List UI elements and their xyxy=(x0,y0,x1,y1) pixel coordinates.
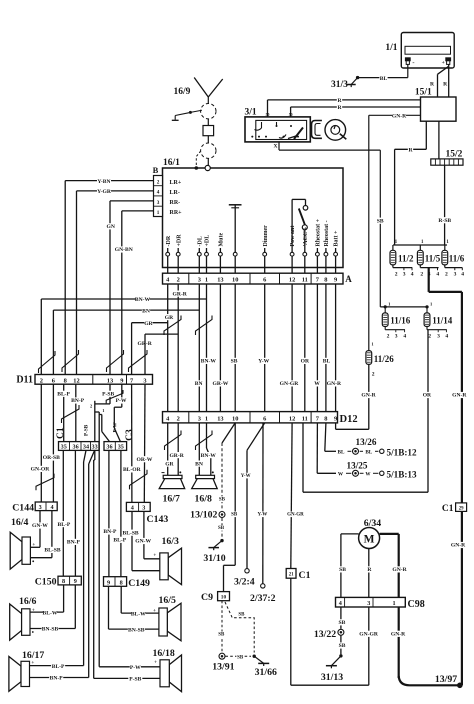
svg-text:GR: GR xyxy=(144,321,153,327)
splice 13/22 xyxy=(314,629,344,640)
connector C3 strip xyxy=(104,442,127,451)
connector slash above D11 pins 8-12 xyxy=(62,350,79,372)
svg-text:1/1: 1/1 xyxy=(385,43,397,53)
svg-text:Dimmer: Dimmer xyxy=(263,225,269,247)
svg-text:2: 2 xyxy=(372,372,375,378)
wire BN branch to D11:6 xyxy=(53,308,199,375)
ground 31/13 xyxy=(321,654,343,683)
wire GN-GR D12:12 to C1:21 xyxy=(287,423,304,569)
connector C1 pin 29 xyxy=(442,503,467,514)
wire P-SB to 16/18 lower xyxy=(94,676,160,683)
svg-text:16/1: 16/1 xyxy=(163,158,180,168)
svg-text:A: A xyxy=(345,274,352,284)
connector slash on 16/7 pair lower xyxy=(165,431,182,451)
wire SB ignition X terminal xyxy=(279,142,384,307)
antenna 16/9 xyxy=(174,78,223,104)
svg-text:BL-SB: BL-SB xyxy=(123,530,139,536)
svg-text:SB: SB xyxy=(377,218,384,224)
wire OR radio A:11 to D12 xyxy=(301,284,310,412)
wire SB D12:10 to 13/102 xyxy=(218,423,235,511)
svg-text:13/97: 13/97 xyxy=(435,674,457,685)
svg-text:15/1: 15/1 xyxy=(415,88,432,98)
connector C143 xyxy=(126,502,168,524)
svg-text:GN: GN xyxy=(107,224,115,230)
svg-text:-: - xyxy=(412,59,414,66)
svg-text:GR-R: GR-R xyxy=(173,291,188,297)
svg-text:SB: SB xyxy=(231,359,238,365)
svg-text:10: 10 xyxy=(221,595,227,601)
svg-text:11: 11 xyxy=(302,277,308,284)
svg-text:GN-GR: GN-GR xyxy=(280,381,300,387)
svg-text:1: 1 xyxy=(205,277,208,284)
connector slash above D11 pins 7-3 xyxy=(129,350,148,372)
svg-text:BN-SB: BN-SB xyxy=(42,627,59,633)
wire GR-W radio A:13 to D12 xyxy=(212,284,228,412)
wire BL-W C150:8 to 16/6 xyxy=(30,585,64,616)
svg-text:3/2:4: 3/2:4 xyxy=(234,577,255,588)
wire BL-P D11:8 to C1:35 xyxy=(57,384,71,441)
svg-text:W: W xyxy=(365,472,371,478)
junction 13/97 xyxy=(435,674,463,688)
svg-text:2: 2 xyxy=(177,416,180,423)
svg-text:2: 2 xyxy=(40,377,43,384)
svg-text:31/66: 31/66 xyxy=(255,667,277,678)
splice 13/102 xyxy=(190,510,225,521)
svg-text:BN-P: BN-P xyxy=(67,540,81,546)
svg-text:34: 34 xyxy=(83,444,89,451)
wire Y-GR radio B:4 xyxy=(77,188,154,374)
wire GN radio B:3 xyxy=(107,201,154,375)
svg-text:11/6: 11/6 xyxy=(449,254,465,264)
svg-text:BN-P: BN-P xyxy=(71,398,85,404)
svg-text:+DL: +DL xyxy=(205,235,211,247)
svg-text:Y-GR: Y-GR xyxy=(97,189,112,195)
svg-text:12: 12 xyxy=(289,416,295,423)
fuse 11/14 xyxy=(424,307,453,340)
wire GN-OR D11:2 to C144:3 xyxy=(31,384,51,502)
svg-text:3: 3 xyxy=(157,200,160,206)
svg-text:LR+: LR+ xyxy=(170,180,182,186)
wire R ignition 50 to 15/1 (upper) xyxy=(268,97,421,117)
svg-text:3: 3 xyxy=(143,377,146,384)
wire BN-P C1:36 to C150:9 xyxy=(66,450,80,576)
svg-text:BN: BN xyxy=(142,308,150,314)
svg-text:15/2: 15/2 xyxy=(446,150,463,160)
wire P-SB D11:13 to 16/18 xyxy=(90,384,115,678)
svg-text:BL-W: BL-W xyxy=(131,611,146,617)
connector C1 strip xyxy=(59,442,100,451)
svg-text:10: 10 xyxy=(232,277,238,284)
svg-text:OR: OR xyxy=(301,359,310,365)
antenna ground lever xyxy=(172,110,202,120)
wire P-W to 16/18 upper xyxy=(99,664,160,671)
connector C144 xyxy=(12,502,57,514)
svg-text:2: 2 xyxy=(420,272,423,278)
dashed hook at radio antenna input xyxy=(196,152,200,165)
svg-text:C3: C3 xyxy=(125,429,135,441)
wire P-W D11:9 to C3:35 xyxy=(102,384,127,441)
wire SB C98:4 to 13/22 xyxy=(338,607,346,629)
wire R from 15/1 to fuse 11/2 xyxy=(395,121,427,245)
wire Y-W D12:6 to 2/37:2 xyxy=(257,423,267,584)
svg-text:16/8: 16/8 xyxy=(195,494,213,505)
svg-text:C1: C1 xyxy=(56,427,66,439)
svg-text:21: 21 xyxy=(289,573,294,578)
ground 31/3 xyxy=(331,76,359,90)
svg-text:1: 1 xyxy=(157,210,160,216)
svg-text:2: 2 xyxy=(177,277,180,284)
svg-text:35: 35 xyxy=(61,444,67,451)
ignition feed box 15/1 xyxy=(415,88,456,122)
connector slash above D11 pins 13-9 xyxy=(107,350,124,372)
fuse 11/5 xyxy=(417,245,440,278)
wire SB 13/22 to ground xyxy=(338,636,346,655)
wire Y-W D12:6 to 3/2:4 xyxy=(241,423,265,569)
svg-text:35: 35 xyxy=(118,444,124,451)
speaker 16/17 xyxy=(9,650,45,691)
svg-text:36: 36 xyxy=(106,444,112,451)
wire C1:33 to 16/17 lower xyxy=(89,450,95,677)
svg-text:GR-R: GR-R xyxy=(169,453,184,459)
svg-text:8: 8 xyxy=(62,578,65,585)
connector C150 xyxy=(35,576,82,587)
svg-text:16/5: 16/5 xyxy=(159,595,177,606)
svg-text:31/3: 31/3 xyxy=(331,80,348,90)
svg-text:GN-R: GN-R xyxy=(327,381,342,387)
wire GR-R branch to D11:3 xyxy=(138,334,179,374)
wire BN radio A:3 to 16/8 xyxy=(195,284,204,475)
svg-text:4: 4 xyxy=(339,600,342,607)
svg-text:33: 33 xyxy=(92,444,98,451)
connector slash below D11 pins 13-9 xyxy=(106,390,123,403)
svg-text:29: 29 xyxy=(459,506,464,511)
svg-text:12: 12 xyxy=(289,277,295,284)
svg-text:BL-W: BL-W xyxy=(43,610,58,616)
svg-text:8: 8 xyxy=(64,377,67,384)
terminal 2/37:2 xyxy=(250,584,276,604)
svg-text:31/13: 31/13 xyxy=(321,672,343,683)
fuse 11/16 xyxy=(382,307,411,340)
wire into C3:36 xyxy=(99,415,109,442)
svg-text:2: 2 xyxy=(387,334,390,340)
wire GN-R 11/26 to D12:9 xyxy=(336,392,377,429)
svg-text:11/2: 11/2 xyxy=(398,254,414,264)
svg-text:SB: SB xyxy=(218,526,225,531)
svg-text:P-SB: P-SB xyxy=(84,424,90,436)
svg-text:OR-SB: OR-SB xyxy=(43,455,60,461)
radio internal ACC switch xyxy=(292,199,308,252)
radio bottom pin terminals xyxy=(166,218,340,273)
radio internal ground pin symbol xyxy=(229,205,242,253)
svg-text:5/1B:13: 5/1B:13 xyxy=(387,470,418,480)
svg-text:+: + xyxy=(154,660,157,666)
wire BN-P C3:36 to C149:9 xyxy=(103,450,117,576)
svg-text:13: 13 xyxy=(217,277,223,284)
svg-text:3: 3 xyxy=(367,600,370,607)
wire BL-P to 16/17 upper xyxy=(30,663,84,670)
svg-text:+: + xyxy=(442,60,445,66)
svg-text:C143: C143 xyxy=(147,514,169,525)
wire BL radio A:8 to D12 xyxy=(322,284,330,412)
fuse 11/26 xyxy=(366,342,394,430)
svg-text:16/3: 16/3 xyxy=(162,536,180,547)
svg-text:BN-W: BN-W xyxy=(201,453,217,459)
svg-text:11: 11 xyxy=(302,416,308,423)
svg-text:P-W: P-W xyxy=(130,665,141,671)
svg-text:BL: BL xyxy=(365,450,372,456)
ignition switch 3/1 xyxy=(245,108,311,150)
svg-text:SB: SB xyxy=(238,612,245,617)
wire GN-BN radio B:1 xyxy=(115,211,154,375)
wire GN-R C98:1 to 13/97 thick xyxy=(391,607,460,685)
svg-text:R-SB: R-SB xyxy=(438,218,451,224)
svg-text:16/6: 16/6 xyxy=(19,596,37,607)
wire R from 15/1 to 15/2 xyxy=(438,121,440,159)
svg-text:BL-P: BL-P xyxy=(57,392,70,398)
battery 1/1 xyxy=(385,33,454,69)
svg-text:Y-BN: Y-BN xyxy=(97,179,110,185)
wire GR branch to D11:7 xyxy=(132,320,168,374)
svg-text:GR: GR xyxy=(165,315,174,321)
wire BN-SB C149:9 to 16/5 xyxy=(109,586,159,633)
svg-text:1: 1 xyxy=(392,600,395,607)
svg-text:4: 4 xyxy=(157,190,160,196)
svg-text:-DR: -DR xyxy=(166,235,172,246)
speaker 16/4 xyxy=(10,517,35,569)
svg-text:BL: BL xyxy=(338,450,345,456)
wire BL-SB C143:4 to 16/3 xyxy=(122,511,160,570)
wire BL-P C1:35 to C150:8 xyxy=(57,450,71,576)
radio receiver 16/1 box xyxy=(163,158,344,268)
svg-text:SB: SB xyxy=(339,567,346,573)
svg-text:4: 4 xyxy=(50,504,53,511)
connector C149 xyxy=(104,577,151,589)
svg-text:+: + xyxy=(153,553,156,559)
wire GN-R radio A:9 to D12 xyxy=(327,284,342,412)
wire GN-R thick below C1:29 xyxy=(451,511,466,685)
ground 31/66 xyxy=(253,655,278,679)
splice 13/26 with terminal 5/1B:12 xyxy=(338,437,417,458)
svg-text:3: 3 xyxy=(454,272,457,278)
svg-text:BN: BN xyxy=(195,461,203,467)
svg-text:GN-R: GN-R xyxy=(451,543,466,549)
svg-text:GR: GR xyxy=(165,461,174,467)
svg-text:36: 36 xyxy=(73,444,79,451)
wire BL-W C149:8 to 16/5 xyxy=(121,586,159,617)
fuse bus wire xyxy=(393,240,449,245)
wire R motor to C98:3 xyxy=(367,549,373,598)
svg-text:GN-R: GN-R xyxy=(391,632,406,638)
svg-text:GN-GR: GN-GR xyxy=(359,632,379,638)
svg-text:SB: SB xyxy=(237,655,244,660)
svg-text:2: 2 xyxy=(395,272,398,278)
speaker 16/5 xyxy=(153,595,181,641)
svg-text:OR: OR xyxy=(423,393,432,399)
svg-text:C1: C1 xyxy=(442,504,454,514)
svg-text:Pow ant: Pow ant xyxy=(290,226,296,247)
svg-text:4: 4 xyxy=(436,272,439,278)
svg-text:11/5: 11/5 xyxy=(425,254,441,264)
svg-text:SB: SB xyxy=(218,633,225,638)
svg-text:SB: SB xyxy=(219,498,226,503)
fuse 11/2 xyxy=(390,245,414,278)
terminal 3/2:4 xyxy=(234,569,255,588)
svg-text:C1: C1 xyxy=(299,570,311,581)
wire BL battery negative xyxy=(358,68,408,82)
svg-text:D12: D12 xyxy=(340,414,358,425)
svg-text:3: 3 xyxy=(403,272,406,278)
svg-text:3/1: 3/1 xyxy=(245,108,257,118)
svg-text:BN-W: BN-W xyxy=(201,359,217,365)
svg-text:16/7: 16/7 xyxy=(163,494,181,505)
svg-text:13/25: 13/25 xyxy=(347,461,368,471)
svg-text:Y-W: Y-W xyxy=(257,513,267,518)
svg-text:Y-W: Y-W xyxy=(258,359,269,365)
svg-text:BN-P: BN-P xyxy=(103,529,117,535)
svg-text:13/102: 13/102 xyxy=(190,510,217,521)
svg-text:4: 4 xyxy=(131,505,134,512)
svg-text:9: 9 xyxy=(334,416,337,423)
wire to 16/18 upper (P-W) xyxy=(95,412,99,667)
svg-text:3: 3 xyxy=(437,334,440,340)
svg-text:Rheostat -: Rheostat - xyxy=(324,220,330,246)
wire BN-P to 16/17 lower xyxy=(30,675,89,682)
wire BL-SB C144:4 to 16/4 xyxy=(30,511,61,558)
wire BN-W radio A:1 to 16/8 xyxy=(201,284,217,475)
svg-text:GN-R: GN-R xyxy=(452,393,467,399)
svg-text:SB: SB xyxy=(339,643,346,649)
speaker 16/6 xyxy=(10,596,37,640)
wire R-SB 15/2 to fuse 11/6 xyxy=(438,165,452,245)
svg-text:16/18: 16/18 xyxy=(153,648,175,659)
svg-text:RR-: RR- xyxy=(170,200,181,206)
svg-text:GN-GR: GN-GR xyxy=(287,513,304,518)
svg-text:2: 2 xyxy=(445,272,448,278)
svg-text:3: 3 xyxy=(198,416,201,423)
svg-text:X: X xyxy=(274,143,278,149)
svg-text:P-W: P-W xyxy=(116,398,127,404)
rotated label C3 xyxy=(125,429,135,441)
svg-text:W: W xyxy=(314,381,320,387)
svg-text:13/91: 13/91 xyxy=(212,661,234,672)
antenna motor 6/34 xyxy=(359,518,382,549)
antenna lead-in box xyxy=(203,126,214,144)
radio connector A strip xyxy=(163,273,353,284)
wire OR-W D11:3 to C143:3 xyxy=(136,384,152,502)
wire R ignition 50 to 15/1 (lower) xyxy=(291,104,421,117)
svg-text:BL-OR: BL-OR xyxy=(123,467,142,473)
tweeter 16/8 xyxy=(192,471,218,504)
tweeter 16/7 xyxy=(159,471,185,504)
svg-text:BL: BL xyxy=(380,76,388,82)
svg-text:-DL: -DL xyxy=(197,236,203,246)
svg-text:13/22: 13/22 xyxy=(314,629,336,640)
svg-text:16/9: 16/9 xyxy=(174,87,191,97)
fuse strip 15/2 xyxy=(431,150,463,166)
splice 13/25 with terminal 5/1B:13 xyxy=(338,461,417,480)
wire OR fuse 11/14 to D12:11 xyxy=(303,330,432,493)
svg-text:BL-P: BL-P xyxy=(52,664,65,670)
svg-text:'ACC'+: 'ACC'+ xyxy=(303,226,309,246)
svg-text:9: 9 xyxy=(120,377,123,384)
wire GR-R radio A:2 to 16/7 xyxy=(169,284,187,475)
svg-text:3: 3 xyxy=(198,277,201,284)
svg-text:2/37:2: 2/37:2 xyxy=(250,593,276,604)
svg-text:GN-OR: GN-OR xyxy=(31,467,51,473)
svg-text:Rheostat +: Rheostat + xyxy=(316,218,322,246)
svg-text:2: 2 xyxy=(90,403,92,408)
wire SB D12:10 to C9 xyxy=(224,423,239,592)
wire BN-SB C150:9 to 16/6 xyxy=(30,585,75,633)
rotated label P-W xyxy=(113,422,119,433)
svg-text:2: 2 xyxy=(428,334,431,340)
svg-text:C149: C149 xyxy=(128,578,150,589)
wire BL D12:8 to 13/26 xyxy=(325,423,336,451)
svg-text:BL-P: BL-P xyxy=(113,538,126,544)
svg-text:5/1B:12: 5/1B:12 xyxy=(387,448,418,458)
connector slash above C143 xyxy=(130,470,148,490)
svg-text:Y-W: Y-W xyxy=(241,474,251,479)
wire BN-P D11:12 to C1:36 xyxy=(71,384,85,441)
antenna coax connector (dashed circle upper) xyxy=(201,104,216,126)
svg-text:BL-SB: BL-SB xyxy=(44,548,60,554)
svg-text:M: M xyxy=(364,534,375,546)
svg-text:BL: BL xyxy=(323,359,331,365)
svg-text:GN-W: GN-W xyxy=(32,523,48,529)
wire SB C9 to 13/91 xyxy=(218,601,226,652)
wire GN-GR radio A:12 to D12 xyxy=(280,284,300,412)
svg-text:13: 13 xyxy=(217,416,223,423)
wire GN-W C144:3 to 16/4 xyxy=(30,511,48,548)
svg-text:SB: SB xyxy=(231,513,238,518)
svg-text:C150: C150 xyxy=(35,576,57,587)
wire BL-OR D11:7 to C143:4 xyxy=(123,384,142,502)
wire GR radio A:4 to 16/7 xyxy=(165,284,175,475)
svg-text:Mute: Mute xyxy=(219,233,225,247)
svg-text:P-SB: P-SB xyxy=(129,677,141,683)
svg-text:3: 3 xyxy=(39,504,42,511)
svg-text:LR-: LR- xyxy=(170,190,180,196)
wire GN-R from 15/1 xyxy=(369,113,421,351)
wire GN-R thick from fuse 11/5 pin 3 xyxy=(429,268,468,503)
wire Y-W radio A:6 to D12 xyxy=(258,284,269,412)
svg-text:9: 9 xyxy=(107,580,110,587)
svg-text:3: 3 xyxy=(142,505,145,512)
svg-text:16/4: 16/4 xyxy=(11,517,29,528)
antenna coax connector (dashed circle lower) xyxy=(201,143,216,168)
wire BN-W branch to D11:2 xyxy=(41,296,206,374)
rotated label C1 xyxy=(56,427,66,439)
connector slash above C1 xyxy=(62,405,80,423)
speaker 16/18 xyxy=(153,648,182,692)
wire SB 13/102 to ground xyxy=(217,518,225,539)
svg-text:13/26: 13/26 xyxy=(356,437,377,447)
connector slash on 16/7 pair upper xyxy=(164,316,181,336)
svg-text:4: 4 xyxy=(403,334,406,340)
svg-text:+DR: +DR xyxy=(176,234,182,247)
svg-text:GN-R: GN-R xyxy=(392,567,407,573)
svg-text:1: 1 xyxy=(102,408,104,413)
wire W radio A:7 to D12 xyxy=(314,284,320,412)
svg-text:GN-BN: GN-BN xyxy=(115,247,133,253)
svg-text:C98: C98 xyxy=(408,599,425,610)
radio B pin labels xyxy=(170,180,183,216)
svg-text:10: 10 xyxy=(232,416,238,423)
svg-text:P-SB: P-SB xyxy=(102,392,114,398)
svg-text:12: 12 xyxy=(73,377,79,384)
fuse 11/6 xyxy=(442,245,465,278)
fuse bus 2 wire xyxy=(380,301,433,308)
